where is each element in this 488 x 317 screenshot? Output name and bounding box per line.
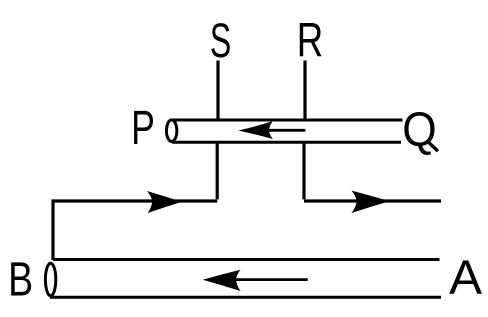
wire from S down to tube PQ (216, 61, 219, 121)
tube PQ bottom edge (172, 141, 401, 144)
label B (8, 253, 33, 306)
svg-text:A: A (449, 251, 482, 304)
tube AB bottom edge (50, 296, 441, 299)
svg-text:P: P (131, 101, 155, 154)
current arrow on right wire (pointing right) (352, 191, 390, 213)
wire from tube PQ down (left branch, below S) (216, 142, 219, 199)
current arrow in tube AB (pointing left toward B) (203, 270, 308, 291)
svg-text:Q: Q (402, 102, 436, 156)
label A (449, 251, 482, 304)
tube AB top edge (53, 258, 440, 261)
tube PQ top edge (172, 119, 403, 122)
current arrow in tube PQ (pointing left toward P) (238, 121, 305, 139)
current arrow on left wire (pointing right) (147, 191, 182, 213)
svg-text:S: S (210, 14, 231, 68)
label S (210, 14, 231, 68)
wire from R down to tube PQ (303, 61, 306, 121)
tube PQ left end opening (166, 120, 176, 142)
label Q (402, 102, 438, 156)
label R (297, 14, 323, 68)
wire from tube PQ down (right branch, below R) (302, 142, 305, 199)
svg-text:R: R (297, 14, 323, 68)
wire horizontal right from R branch (304, 199, 441, 202)
label P (131, 101, 155, 154)
svg-text:B: B (8, 253, 33, 306)
tube AB left end opening (45, 263, 55, 296)
wire horizontal left with corner down to B tube (53, 201, 217, 260)
